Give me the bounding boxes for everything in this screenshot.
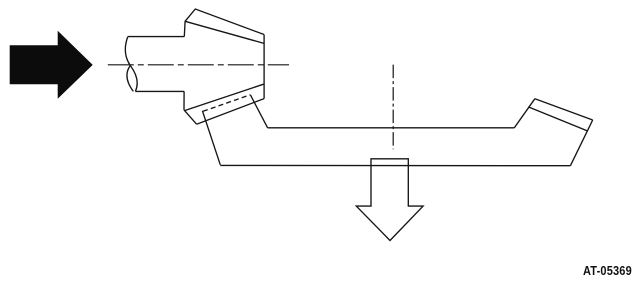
fork arm top edge	[268, 127, 515, 129]
figure number label	[583, 264, 632, 278]
cone right edge	[263, 35, 265, 99]
shaft bottom line	[135, 90, 184, 92]
fork finger right edge	[250, 95, 267, 128]
right pad rise diagonal	[514, 99, 535, 128]
cone left edge lower segment	[183, 91, 185, 110]
right pad top edge	[535, 99, 593, 120]
hidden edge (dashed) on cone band	[203, 95, 250, 111]
shaft end face arc	[127, 66, 133, 92]
fork finger left edge	[202, 111, 220, 165]
horizontal center line (dash-dot axis of shaft)	[108, 64, 289, 66]
shaft end silhouette arc	[125, 37, 137, 92]
input force arrow (solid black, pointing right)	[10, 32, 92, 98]
cone base band inner edge	[197, 99, 265, 125]
right pad inner edge	[528, 107, 587, 131]
cone base band outer edge	[185, 84, 264, 110]
cone top face	[184, 9, 264, 37]
vertical center line (dash-dot axis at fork)	[392, 65, 394, 150]
shaft top line	[128, 36, 185, 38]
cone top inner edge	[185, 21, 264, 43]
right pad right edge	[570, 120, 592, 166]
output force arrow (hollow, pointing down)	[356, 159, 423, 241]
fork arm bottom edge	[220, 164, 570, 166]
cone bottom-left corner diagonal	[184, 110, 197, 124]
